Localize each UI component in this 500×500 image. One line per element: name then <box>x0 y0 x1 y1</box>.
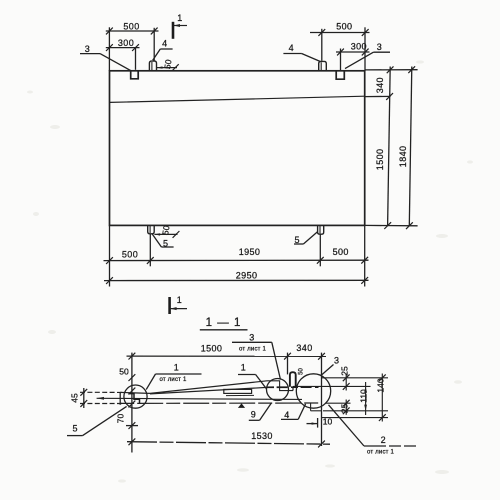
svg-text:1 — 1: 1 — 1 <box>206 317 242 329</box>
notch top-right (item 3) <box>336 71 344 79</box>
loop in section (staple) <box>290 372 296 387</box>
svg-text:340: 340 <box>296 343 312 353</box>
svg-text:1: 1 <box>177 13 182 23</box>
dim 140 right <box>381 374 383 422</box>
svg-text:1: 1 <box>177 295 182 305</box>
sloped top chord (wedge top) <box>150 381 267 394</box>
dim 500 top-left: extension lines <box>108 27 110 71</box>
svg-text:500: 500 <box>333 247 349 257</box>
svg-text:3: 3 <box>249 332 254 342</box>
long extension x=321.5 (rib end) <box>321 353 323 446</box>
detail circle left <box>124 385 147 408</box>
svg-text:500: 500 <box>122 249 138 259</box>
wedge lower line <box>150 387 267 394</box>
svg-text:4: 4 <box>284 410 289 420</box>
mini dim 50 at bottom-left loop <box>154 233 177 235</box>
bottom dim line 1530 <box>127 442 330 445</box>
svg-text:5: 5 <box>294 235 299 245</box>
dim 500 top-right: extension lines <box>321 29 323 61</box>
right-side dims: horizontal extensions <box>365 69 418 71</box>
svg-text:от лист 1: от лист 1 <box>367 450 394 456</box>
svg-text:25: 25 <box>340 366 350 376</box>
bottom dim line 500/1950/500 <box>104 259 369 261</box>
svg-text:2: 2 <box>381 435 386 445</box>
leader label 3 top-right <box>373 51 390 53</box>
svg-text:9: 9 <box>251 410 256 420</box>
svg-text:3: 3 <box>334 355 339 365</box>
svg-text:25: 25 <box>340 404 350 414</box>
label 3 section right: leader <box>321 365 334 376</box>
lifting loop top-right (item 4) <box>319 61 327 70</box>
svg-text:45: 45 <box>70 393 80 403</box>
panel rib line 340 <box>110 96 365 102</box>
section cut mark top <box>172 22 175 39</box>
svg-text:300: 300 <box>351 42 367 52</box>
svg-text:2950: 2950 <box>236 270 258 280</box>
svg-text:140: 140 <box>376 378 386 392</box>
dim 500 top-left: dimension line <box>106 30 159 32</box>
dim 70 (left) <box>129 401 136 408</box>
mid axis line with left arrow <box>97 398 302 399</box>
dashed projection left bottom <box>80 403 124 405</box>
label 1 right: bar <box>238 374 256 376</box>
panel outline <box>110 71 365 226</box>
svg-text:500: 500 <box>336 21 352 31</box>
right side extension lines <box>322 377 389 379</box>
dim 300 top-right: dimension line <box>336 51 370 53</box>
detail circle mid-right <box>267 379 289 401</box>
slab left end face <box>119 392 121 405</box>
mini dim 50 at top-left loop <box>157 67 177 69</box>
section cut mark bottom <box>168 297 171 314</box>
svg-text:1500: 1500 <box>375 149 385 171</box>
svg-text:50: 50 <box>299 368 305 375</box>
svg-text:1950: 1950 <box>239 247 261 257</box>
long extension x=131.9 (left loop axis) <box>131 353 133 453</box>
bottom dim line 2950 <box>104 279 369 281</box>
SECTION VIEW 1-1 <box>67 330 416 453</box>
leader of flag 3 <box>272 342 281 379</box>
PLAN TEXTS <box>85 13 408 305</box>
svg-text:300: 300 <box>118 38 134 48</box>
leader label 5 bottom-left <box>161 246 173 248</box>
notch top-left (item 3) <box>131 71 139 79</box>
SECTION TEXTS <box>70 317 395 455</box>
svg-text:50: 50 <box>160 224 172 235</box>
lifting loop bottom-left (item 5) <box>148 225 155 234</box>
tendon dark dashes right <box>267 386 319 388</box>
leader label 4 top-right <box>283 53 301 55</box>
detail circle right <box>296 374 330 408</box>
svg-text:от лист 1: от лист 1 <box>239 346 266 352</box>
flag label 3 (ot list 1) bar <box>232 341 272 343</box>
right-side dim line 340/1500 <box>388 67 391 227</box>
dim 300 top-left: dimension line <box>106 47 140 49</box>
svg-text:1840: 1840 <box>398 146 408 168</box>
leader label 3 top-left <box>80 53 100 55</box>
dim 10 rib bottom <box>317 418 319 428</box>
label 5 section: bar+leader <box>67 435 83 437</box>
flag label 2 bottom-right: bar+leader <box>364 445 416 447</box>
svg-text:4: 4 <box>162 39 167 49</box>
lifting loop bottom-right (item 5) <box>318 225 324 234</box>
svg-text:1500: 1500 <box>201 343 223 353</box>
dim 45 left end <box>83 388 85 408</box>
leader label 5 bottom-right <box>294 243 303 245</box>
svg-text:1530: 1530 <box>251 431 273 441</box>
right end: step outline <box>267 381 293 391</box>
right-side dim line 1840 <box>409 67 412 227</box>
leader label 4 top-left <box>160 48 172 50</box>
svg-text:1: 1 <box>241 363 246 373</box>
support triangle <box>238 403 245 408</box>
rib bottom right <box>310 403 312 411</box>
label 4 section: bar+leader <box>281 418 298 420</box>
section title underline <box>200 329 248 331</box>
svg-text:110: 110 <box>359 389 369 403</box>
faint scan noise <box>27 60 473 482</box>
label 9 section: bar+leader <box>249 419 260 421</box>
dim 25 bottom right <box>343 400 350 407</box>
dim 50 (loop height, left) <box>129 374 136 381</box>
svg-text:10: 10 <box>323 416 333 426</box>
svg-text:от лист 1: от лист 1 <box>159 377 186 383</box>
svg-text:5: 5 <box>72 424 77 434</box>
svg-text:3: 3 <box>85 44 90 54</box>
slab bottom line <box>120 402 321 404</box>
extension x=287.5 (loop) <box>287 353 289 375</box>
svg-text:5: 5 <box>163 238 168 248</box>
svg-text:50: 50 <box>119 366 129 376</box>
svg-text:500: 500 <box>123 22 139 32</box>
svg-text:70: 70 <box>116 414 126 424</box>
svg-text:1: 1 <box>174 363 179 373</box>
slab top left <box>120 392 150 393</box>
flag label 1 left: bar <box>156 373 202 375</box>
svg-text:340: 340 <box>375 77 385 93</box>
svg-text:4: 4 <box>289 43 294 53</box>
dim line 1500 / 340 (section top) <box>127 355 327 357</box>
bottom dims: extension lines <box>109 225 111 286</box>
dim 500 top-right: dimension line <box>310 32 370 34</box>
svg-text:3: 3 <box>377 42 382 52</box>
dim 110 right <box>365 382 367 415</box>
tendon plate rect <box>224 389 252 393</box>
lifting loop top-left (item 4) <box>149 61 156 71</box>
dim 25 top right <box>345 374 347 391</box>
anchor detail in left circle <box>129 394 140 404</box>
dashed projection left top <box>80 391 122 393</box>
svg-text:50: 50 <box>162 58 174 69</box>
